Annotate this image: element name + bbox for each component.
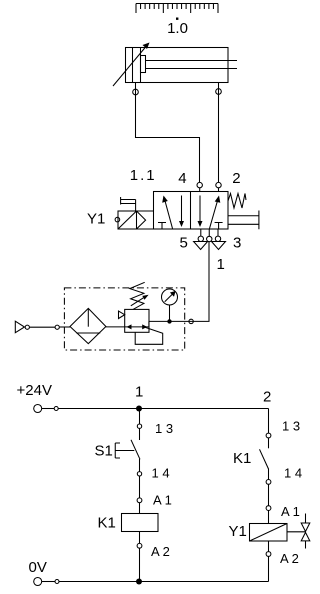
wire node2 down — [268, 409, 270, 434]
svg-text:2: 2 — [232, 170, 240, 187]
K1 coil A1 connection — [137, 498, 142, 503]
pushbutton S1 actuator — [115, 443, 134, 458]
ruler scale — [136, 4, 218, 14]
ruler position marker — [176, 18, 178, 20]
valve connection 3 — [215, 229, 220, 242]
wire S1 to coil K1 — [139, 476, 141, 498]
valve connection 1 — [207, 229, 212, 242]
spring return — [228, 194, 246, 209]
solenoid manual override — [121, 197, 136, 211]
K1 coil bottom stub — [139, 532, 141, 544]
svg-text:5: 5 — [180, 235, 188, 252]
valve right box: arrow 4 to 5 — [198, 196, 203, 228]
wire node1 to S1 — [139, 409, 141, 425]
pressure regulator — [125, 309, 149, 332]
svg-text:2: 2 — [263, 389, 271, 406]
service unit inlet connection — [55, 325, 59, 329]
cushioning adjust arrow — [113, 43, 150, 87]
valve connection 2 — [216, 182, 221, 191]
svg-text:Y1: Y1 — [229, 523, 247, 540]
svg-text:A 1: A 1 — [281, 504, 300, 519]
solenoid connection circle — [115, 217, 120, 222]
svg-text:A 2: A 2 — [151, 544, 170, 559]
svg-text:1.1: 1.1 — [130, 167, 157, 184]
valve 1.1 body — [154, 192, 229, 230]
svg-text:3: 3 — [233, 235, 241, 252]
S1 bottom connection — [137, 472, 141, 476]
wire filter to regulator — [106, 326, 125, 328]
svg-text:A 1: A 1 — [153, 493, 172, 508]
wire K1 coil to 0V rail — [139, 548, 141, 581]
compressed air source — [15, 321, 29, 333]
K1 contact bottom stub — [268, 469, 270, 480]
S1 top connection — [137, 424, 141, 428]
relay contact K1 blade — [260, 449, 269, 469]
wire inlet to filter — [59, 326, 70, 328]
Y1 pilot valve symbol — [287, 514, 310, 549]
svg-text:K1: K1 — [98, 515, 116, 532]
svg-text:1: 1 — [135, 384, 143, 401]
svg-text:1 3: 1 3 — [282, 419, 300, 434]
service unit outlet connection — [189, 319, 193, 323]
K1 contact top connection — [266, 433, 271, 438]
valve right box: arrow 1 to 2 — [210, 196, 221, 229]
regulator adjustment spring — [130, 282, 145, 309]
pressure gauge — [162, 289, 178, 324]
0V rail wire — [59, 581, 269, 583]
K1 contact bottom connection — [266, 480, 271, 485]
cylinder 1.0 — [126, 48, 238, 83]
wire valve port 1 to service unit outlet — [149, 242, 209, 322]
svg-text:1 3: 1 3 — [155, 421, 173, 436]
svg-text:1: 1 — [217, 256, 225, 273]
S1 top contact stub — [139, 428, 141, 440]
svg-text:+24V: +24V — [17, 382, 52, 399]
K1 contact top stub — [268, 438, 270, 448]
wire K1 contact to Y1 coil — [268, 484, 270, 505]
wire source to service unit — [29, 326, 55, 328]
svg-text:S1: S1 — [95, 443, 113, 460]
Y1 coil A1 connection — [266, 506, 271, 511]
valve left box: arrow 2 to 3 — [179, 196, 184, 228]
filter with separator — [70, 308, 106, 343]
Y1 coil A2 connection — [266, 552, 271, 557]
solenoid coil Y1 — [250, 524, 288, 542]
svg-text:K1: K1 — [233, 450, 251, 467]
exhaust silencer port 3 — [212, 242, 226, 250]
pushbutton S1 blade — [131, 440, 140, 460]
node 1 junction — [136, 406, 142, 412]
valve left box: port 5 blocked — [158, 223, 166, 230]
S1 bottom stub — [139, 459, 141, 472]
valve stem right — [228, 211, 259, 230]
exhaust silencer port 5 — [194, 242, 208, 250]
svg-text:0V: 0V — [29, 559, 47, 576]
service unit dash-dot frame — [64, 288, 184, 350]
valve connection 4 — [197, 182, 202, 191]
relay coil K1 — [122, 514, 159, 532]
Y1 coil top stub — [268, 511, 270, 524]
cylinder port right — [216, 89, 222, 95]
wire Y1 coil to 0V rail — [268, 556, 270, 581]
wire cylinder right port to valve port 2 — [218, 83, 220, 183]
svg-text:4: 4 — [178, 170, 186, 187]
+24V rail wire — [58, 408, 268, 410]
svg-text:1.0: 1.0 — [167, 20, 188, 37]
svg-text:Y1: Y1 — [87, 211, 105, 228]
svg-text:1 4: 1 4 — [152, 466, 170, 481]
regulator relief vent — [119, 311, 125, 319]
svg-text:A 2: A 2 — [280, 551, 299, 566]
valve right box: port 3 blocked — [215, 223, 223, 230]
regulator feedback line — [135, 327, 163, 344]
solenoid Y1 — [118, 211, 153, 229]
Y1 coil bottom stub — [268, 541, 270, 552]
svg-text:1 4: 1 4 — [284, 466, 302, 481]
valve connection 5 — [198, 229, 203, 242]
regulator adjustment arrow — [131, 295, 149, 306]
node at 0V column 1 — [136, 579, 142, 585]
valve left box: arrow 1 to 4 — [162, 196, 172, 229]
cylinder port left — [133, 89, 139, 95]
K1 coil A2 connection — [137, 543, 142, 548]
wire cylinder left port to valve port 4 — [136, 83, 200, 183]
0V rail terminals — [34, 578, 59, 586]
K1 coil top stub — [139, 503, 141, 514]
+24V rail terminals — [34, 405, 59, 413]
